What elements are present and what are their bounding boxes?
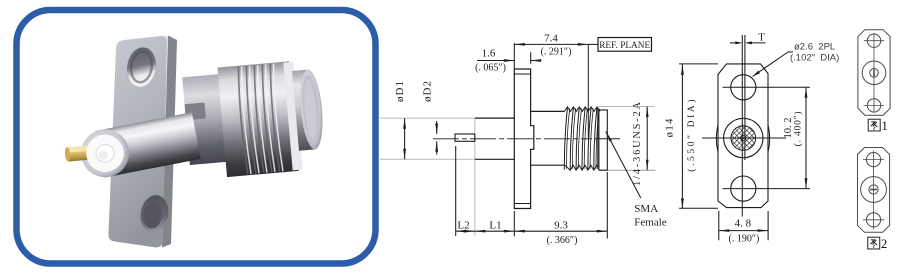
svg-text:2: 2	[881, 237, 887, 251]
dimension 1/4-36UNS-2A thread OD	[646, 107, 648, 171]
svg-text:T: T	[758, 32, 765, 44]
dimension T	[730, 42, 740, 44]
front view: side arcs of body behind flange	[716, 125, 718, 152]
fig.2 small flange view (tu 2)	[858, 148, 890, 233]
connector photo: rear coupling nut	[182, 59, 327, 177]
svg-text:REF. PLANE: REF. PLANE	[599, 41, 650, 51]
fig.1 small flange view (tu 1)	[858, 30, 890, 116]
svg-text:øD2: øD2	[422, 80, 434, 102]
svg-text:9.3: 9.3	[554, 219, 568, 231]
dimension oD1	[404, 118, 406, 159]
front view: top mounting hole	[731, 75, 756, 100]
REF. PLANE line and box	[587, 44, 589, 140]
dimension chain L2 / L1 / 9.3	[455, 146, 457, 236]
dimension 4.8 (.190")	[718, 211, 720, 240]
svg-text:ø14: ø14	[665, 117, 676, 137]
dimension 1.6 (.065")	[530, 52, 532, 64]
side view: center pin	[455, 134, 475, 141]
svg-text:1/4-36UNS-2A: 1/4-36UNS-2A	[632, 100, 643, 186]
front view: vertical centerline (tab lines)	[741, 35, 743, 217]
svg-text:(. 065″): (. 065″)	[475, 63, 506, 74]
side view: right end cap (SMA interface)	[599, 110, 607, 170]
svg-text:(. 291″): (. 291″)	[541, 47, 572, 58]
svg-text:(. 190″): (. 190″)	[728, 234, 759, 245]
dimension oD2	[436, 121, 438, 134]
svg-text:(.102″ DIA): (.102″ DIA)	[790, 53, 839, 64]
svg-text:ø2.6 2PL: ø2.6 2PL	[794, 42, 835, 53]
side view: threaded section 1/4-36	[564, 107, 600, 112]
svg-text:1: 1	[882, 119, 888, 133]
svg-text:SMA: SMA	[634, 203, 658, 215]
connector photo: front barrel with dielectric face	[77, 112, 201, 181]
side view: oD1 insulator cylinder	[475, 117, 514, 119]
svg-text:10. 2: 10. 2	[783, 118, 794, 139]
side view: mid body	[531, 110, 565, 112]
front view: center circle with hatched dielectric	[724, 118, 763, 157]
front view: bottom mounting hole	[731, 176, 756, 201]
svg-text:1.6: 1.6	[482, 47, 496, 59]
svg-text:7.4: 7.4	[544, 33, 558, 45]
front view: flange outline with chamfered corners	[718, 64, 768, 208]
SMA Female label and leader	[606, 132, 641, 199]
blue rounded border panel	[17, 10, 376, 264]
svg-text:(. 400″): (. 400″)	[793, 111, 804, 147]
connector photo: gold center pin	[64, 145, 95, 162]
dimension 7.4 (.291")	[513, 43, 515, 69]
connector photo: mounting flange plate	[108, 36, 177, 248]
connector photo: dielectric face	[83, 131, 127, 175]
svg-text:øD1: øD1	[394, 80, 406, 102]
side view: flange plate cross-section	[514, 69, 534, 209]
dimension o14 (.550" DIA)	[679, 63, 718, 65]
svg-text:L2: L2	[457, 220, 469, 232]
side view: centerline	[433, 138, 592, 140]
svg-text:(.550″ DIA): (.550″ DIA)	[686, 97, 697, 172]
svg-text:4. 8: 4. 8	[735, 217, 752, 229]
svg-text:(. 366″): (. 366″)	[547, 235, 578, 246]
callout o2.6 2PL (.102" DIA)	[753, 52, 789, 77]
dimension 10.2 (.400")	[805, 87, 807, 188]
side view: grey extension lines (oD1 / thread OD)	[380, 117, 475, 119]
svg-text:L1: L1	[489, 220, 501, 232]
svg-text:Female: Female	[634, 217, 666, 229]
